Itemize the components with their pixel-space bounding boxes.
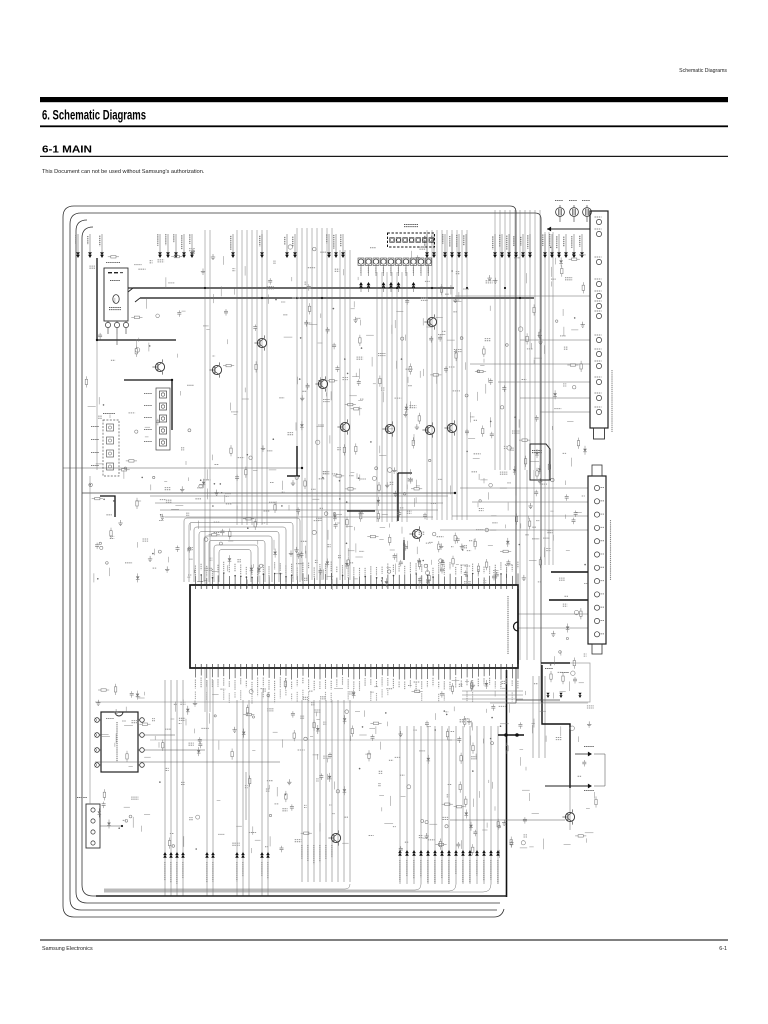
wire group: thin horizontals to mid-right connector — [440, 488, 588, 628]
label: CN401 part number (rotated) — [611, 370, 613, 432]
thick right bus trunk wire — [506, 670, 508, 897]
schematic sheet border outline 4 — [82, 227, 503, 896]
connector CN02 (OSD 5-pin strip) — [144, 388, 170, 450]
wire: thick audio path to output — [542, 665, 570, 788]
wire: bottom horizontal runs — [90, 476, 565, 820]
svg-text:Schematic Diagrams: Schematic Diagrams — [679, 68, 727, 74]
transistor Q05 — [427, 317, 436, 326]
connector CN801 (bottom-left 4-pin) — [77, 798, 123, 849]
component field: below-IC parts row — [96, 678, 546, 766]
wire: thick L tuner AGC — [124, 380, 172, 430]
wires from IC101 to right — [144, 735, 205, 750]
schematic sheet border outline 3 — [76, 220, 500, 903]
transistor Q08 — [340, 422, 349, 431]
transistor Q06 — [425, 425, 434, 434]
wire: thick accent segments in pre-IC band — [287, 446, 412, 560]
transistor Q04 — [318, 379, 327, 388]
wire: thick feed into mid-right connector pin 7 — [551, 571, 588, 573]
connector P601 (top dashed header) — [388, 233, 435, 247]
arrow group: pin-row feed arrows — [359, 282, 415, 292]
svg-text:This Document can not be used: This Document can not be used without Sa… — [42, 169, 205, 175]
label: top header designator — [404, 224, 418, 226]
component field: top harness small parts — [89, 245, 526, 309]
footer rule — [40, 940, 728, 941]
thick junction bar near bottom-right trunk — [498, 733, 524, 737]
wire bus: top-to-middle vertical harness — [97, 210, 553, 712]
tuner TU001 (RF tuner box) — [104, 268, 133, 345]
label: CN601 part number (rotated) — [610, 520, 612, 580]
component field: lower-middle parts — [98, 767, 534, 858]
wire: left long horizontal run at mid sheet — [63, 467, 302, 469]
junction dot group on major wires — [96, 287, 521, 736]
label: connector CN03 name — [103, 413, 115, 415]
transistor Q01 — [155, 362, 164, 371]
wire: IF horizontal bus (upper) — [140, 297, 534, 299]
transistor Q03 — [257, 338, 266, 347]
block: audio output stage box — [541, 663, 590, 702]
sheet border jog to lower-right bus — [507, 698, 541, 703]
label: tuner designator — [106, 262, 120, 264]
svg-text:Samsung Electronics: Samsung Electronics — [42, 946, 93, 952]
component field: dense pre-IC parts row — [89, 465, 550, 590]
page header rule: thick section bar — [40, 97, 728, 102]
component field: upper-left tuner support parts (resistors/capacitors) — [85, 309, 300, 465]
label group: rotated net names along top harness — [76, 234, 580, 250]
svg-text:6-1 MAIN: 6-1 MAIN — [42, 145, 92, 156]
wire: left AFT horizontal run — [82, 492, 455, 494]
component field: bottom-right sparse parts — [427, 704, 598, 850]
IC201 main processor (large horizontal IC) — [190, 585, 518, 668]
transformer T103 — [582, 201, 591, 223]
rule under subsection title — [40, 156, 728, 157]
wire nest: nested bends feeding IC left pins — [150, 496, 448, 582]
transistor Q10 — [412, 529, 421, 538]
transistor Q11 — [331, 833, 340, 842]
arrow group: bottom harness arrows with rotated net labels — [163, 845, 500, 884]
wire: bottom-right V-out branch with arrows — [545, 747, 605, 791]
transformer T102 — [569, 201, 578, 223]
wire: RF AGC horizontal bus (upper) — [133, 287, 454, 289]
connector CN401 (top-right vertical header) — [590, 211, 608, 439]
arrow group: harness entry arrows along top of sheet — [76, 234, 584, 258]
component field: right connector support parts — [546, 438, 589, 699]
svg-text:6. Schematic Diagrams: 6. Schematic Diagrams — [42, 108, 146, 123]
wire: thick feed into mid-right connector pin 9 — [549, 599, 588, 601]
connector CN03 (left 4-pin strip) — [91, 420, 119, 476]
schematic sheet border outline 2 — [70, 213, 541, 910]
IC201 pin fringe (top and bottom pins with net labels) — [195, 562, 518, 705]
transistor Q07 — [447, 423, 456, 432]
wire: thick bottom rail from trunk corner — [96, 895, 507, 897]
component field: upper-middle IF/video parts — [300, 303, 545, 467]
rule under section title — [40, 125, 728, 127]
component field: right margin parts beside CN401 — [550, 247, 586, 431]
wire bus: middle-to-bottom vertical harness — [104, 676, 570, 896]
sheet jog lines above audio block — [462, 691, 588, 703]
svg-text:6-1: 6-1 — [719, 946, 727, 952]
transformer T101 — [555, 201, 564, 223]
block: H/V module small box — [530, 444, 550, 480]
transistor Q12 — [565, 812, 574, 821]
schematic sheet border outline 1 — [63, 206, 516, 917]
pin row below top header (circled test pins) — [358, 258, 432, 276]
wire: thick L in left mid sheet — [100, 496, 115, 517]
transistor Q02 — [212, 365, 221, 374]
wire group: thin horizontals to top-right connector — [455, 296, 590, 412]
arrow on wire to right connector — [547, 227, 551, 232]
wire: thick L from top-left bus down to tuner row — [97, 258, 176, 340]
IC101 EEPROM (8-pin DIP) — [95, 712, 145, 772]
transistor Q09 — [385, 424, 394, 433]
connector CN601 (mid-right vertical header) — [588, 465, 606, 654]
wire: horizontal run to right connector top — [547, 228, 590, 230]
